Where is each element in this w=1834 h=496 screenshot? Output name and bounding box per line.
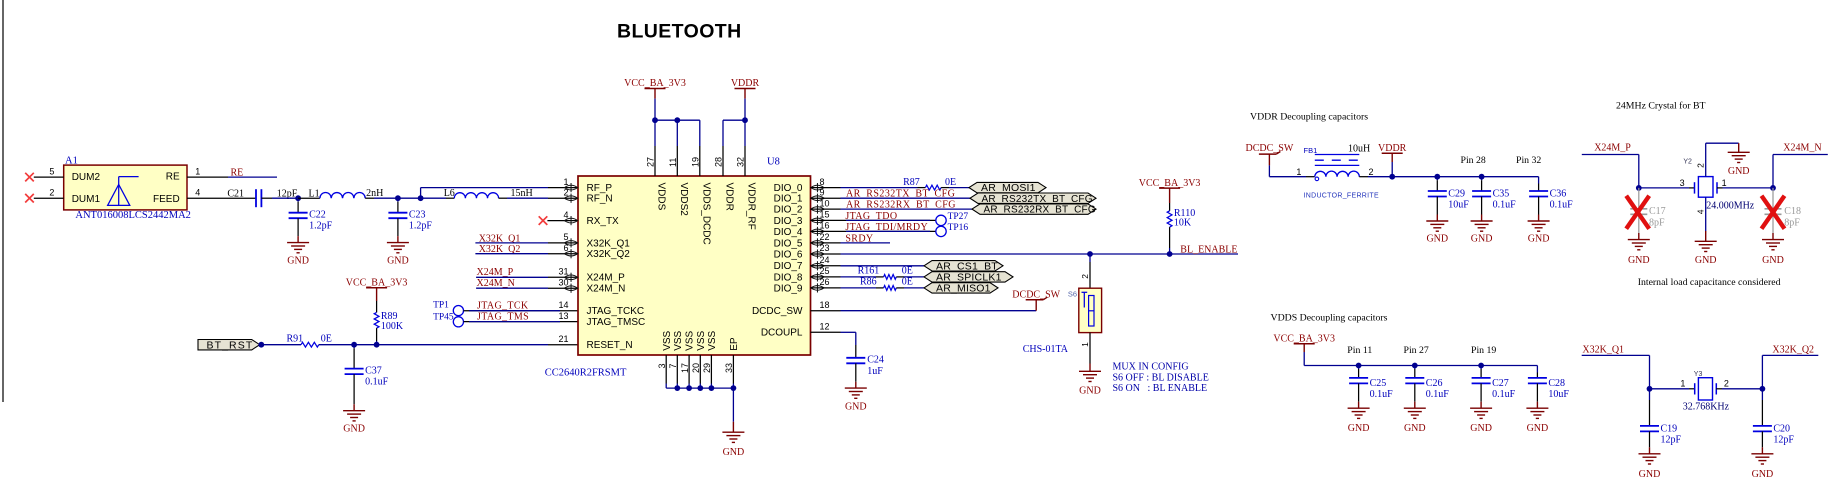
svg-text:VSS: VSS xyxy=(685,330,696,350)
svg-text:AR_RS232RX_BT_CFG: AR_RS232RX_BT_CFG xyxy=(984,205,1096,216)
svg-text:GND: GND xyxy=(1728,166,1750,177)
capacitor C19 12pF to GND xyxy=(1649,389,1651,400)
svg-text:C20: C20 xyxy=(1773,423,1790,434)
svg-text:MUX IN CONFIG: MUX IN CONFIG xyxy=(1113,361,1189,372)
svg-text:TP45: TP45 xyxy=(433,312,454,322)
svg-text:VDDR_RF: VDDR_RF xyxy=(746,183,757,230)
svg-text:DCDC_SW: DCDC_SW xyxy=(1012,289,1060,300)
crystal Y2 pin 4 to GND xyxy=(1705,197,1707,231)
capacitor C18 8pF DNP (grey) xyxy=(1772,188,1774,209)
svg-text:2: 2 xyxy=(1080,274,1090,279)
capacitor C23 1.2pF to GND xyxy=(397,198,399,202)
svg-text:10uH: 10uH xyxy=(1348,144,1370,155)
wire to crystal Y3 pin 1 xyxy=(1650,388,1690,390)
test point TP45 xyxy=(453,317,463,327)
svg-text:0.1uF: 0.1uF xyxy=(1426,389,1450,400)
svg-text:Pin 19: Pin 19 xyxy=(1471,345,1496,356)
svg-text:10uF: 10uF xyxy=(1448,200,1469,211)
svg-text:VDDR Decoupling capacitors: VDDR Decoupling capacitors xyxy=(1250,112,1368,123)
wire X32K_Q1 xyxy=(1582,354,1650,356)
svg-text:11: 11 xyxy=(668,158,678,167)
crystal pin 1 wire xyxy=(1717,187,1723,189)
A1 pin 4 FEED wire to C21 xyxy=(187,197,256,199)
ground at Y2 pin 4 xyxy=(1695,240,1717,242)
wire C21 to node1 xyxy=(261,197,272,199)
svg-text:1: 1 xyxy=(195,166,200,176)
svg-text:Internal load capacitance cons: Internal load capacitance considered xyxy=(1638,277,1781,288)
wire DIO_9 to R86 xyxy=(841,287,877,289)
svg-text:VCC_BA_3V3: VCC_BA_3V3 xyxy=(1273,334,1335,345)
capacitor C35 0.1uF to GND xyxy=(1481,177,1483,181)
svg-text:12: 12 xyxy=(820,322,830,332)
svg-text:GND: GND xyxy=(723,447,745,458)
svg-text:S6 OFF : BL DISABLE: S6 OFF : BL DISABLE xyxy=(1113,372,1209,383)
svg-text:RX_TX: RX_TX xyxy=(587,216,620,227)
svg-text:C37: C37 xyxy=(365,365,382,376)
svg-text:Pin 32: Pin 32 xyxy=(1516,155,1541,166)
svg-text:16: 16 xyxy=(820,221,830,231)
svg-text:FEED: FEED xyxy=(153,194,180,205)
svg-text:VDDS_DCDC: VDDS_DCDC xyxy=(700,183,711,245)
antenna A1 body xyxy=(64,165,187,210)
wire R87 to tag xyxy=(949,187,969,189)
svg-text:100K: 100K xyxy=(381,321,404,332)
svg-text:R87: R87 xyxy=(903,177,920,188)
svg-text:2nH: 2nH xyxy=(366,188,383,199)
off-page connector AR_SPICLK1 xyxy=(924,272,1013,282)
svg-text:15nH: 15nH xyxy=(511,188,533,199)
wire to crystal pin 3 xyxy=(1639,187,1689,189)
svg-text:TP16: TP16 xyxy=(948,223,969,233)
resistor R89 100K xyxy=(376,301,378,312)
svg-text:2: 2 xyxy=(563,187,568,197)
svg-text:5: 5 xyxy=(49,166,54,176)
svg-text:R86: R86 xyxy=(860,276,877,287)
svg-text:1: 1 xyxy=(1296,167,1301,177)
capacitor C28 10uF to GND xyxy=(1536,366,1538,370)
svg-text:GND: GND xyxy=(387,256,409,267)
svg-text:CHS-01TA: CHS-01TA xyxy=(1023,344,1069,355)
svg-text:DUM2: DUM2 xyxy=(72,172,101,183)
A1 pin 1 RE wire xyxy=(187,176,228,178)
svg-text:JTAG_TMSC: JTAG_TMSC xyxy=(587,317,646,328)
svg-text:Y2: Y2 xyxy=(1683,159,1692,166)
svg-text:DIO_0: DIO_0 xyxy=(774,183,803,194)
svg-text:0.1uF: 0.1uF xyxy=(1493,200,1517,211)
svg-text:FB1: FB1 xyxy=(1304,146,1318,155)
junction at R89 xyxy=(374,342,380,348)
off-page connector BT_RST xyxy=(198,340,260,350)
VDDS decoupling bus xyxy=(1304,365,1537,367)
crystal Y2 pin 2 to GND xyxy=(1705,143,1707,176)
svg-text:5: 5 xyxy=(563,232,568,242)
wire DCDC_SW pin 18 xyxy=(841,310,1037,312)
svg-text:1uF: 1uF xyxy=(867,366,883,377)
svg-text:C19: C19 xyxy=(1661,423,1678,434)
crystal Y3 pin 2 wire xyxy=(1716,388,1722,390)
off-page connector AR_RS232RX_BT_CFG xyxy=(972,204,1096,214)
svg-text:C17: C17 xyxy=(1649,206,1666,217)
svg-text:RE: RE xyxy=(166,172,180,183)
svg-text:0E: 0E xyxy=(902,265,913,276)
ground under U8 xyxy=(722,431,744,433)
svg-text:DIO_7: DIO_7 xyxy=(774,261,803,272)
VSS ground bus xyxy=(666,387,733,389)
svg-text:27: 27 xyxy=(646,157,656,167)
switch S6 symbol xyxy=(1082,291,1088,293)
junction at VDDR xyxy=(1389,174,1395,180)
wire DCDC_SW to FB1 xyxy=(1269,176,1306,178)
svg-text:14: 14 xyxy=(558,300,568,310)
DNP X over C18 xyxy=(1762,196,1785,229)
ground under C17 xyxy=(1628,239,1650,241)
svg-text:GND: GND xyxy=(343,424,365,435)
svg-text:30: 30 xyxy=(558,277,568,287)
svg-text:DIO_9: DIO_9 xyxy=(774,283,803,294)
svg-text:INDUCTOR_FERRITE: INDUCTOR_FERRITE xyxy=(1304,193,1379,200)
svg-text:C26: C26 xyxy=(1426,378,1443,389)
svg-text:4: 4 xyxy=(563,210,568,220)
svg-text:C18: C18 xyxy=(1784,206,1801,217)
svg-text:X32K_Q1: X32K_Q1 xyxy=(1582,344,1624,355)
capacitor C24 1uF to GND xyxy=(855,345,857,358)
svg-text:33: 33 xyxy=(724,363,734,373)
svg-text:A1: A1 xyxy=(65,155,78,166)
svg-text:BT_RST: BT_RST xyxy=(207,339,254,351)
svg-text:24MHz Crystal for BT: 24MHz Crystal for BT xyxy=(1616,101,1706,112)
svg-text:Pin 11: Pin 11 xyxy=(1347,345,1372,356)
test point TP27 xyxy=(936,215,946,225)
junction at C17 xyxy=(1636,185,1642,191)
svg-text:DUM1: DUM1 xyxy=(72,194,101,205)
svg-text:VDDS: VDDS xyxy=(656,183,667,211)
svg-text:26: 26 xyxy=(820,277,830,287)
svg-text:RF_N: RF_N xyxy=(587,194,613,205)
junction at BT_RST tip xyxy=(258,342,264,348)
wire VDDR to pins 28 32 xyxy=(744,99,746,121)
svg-text:12pF: 12pF xyxy=(1773,435,1794,446)
svg-text:VDDR: VDDR xyxy=(1378,143,1407,154)
svg-text:1.2pF: 1.2pF xyxy=(309,221,333,232)
svg-text:VCC_BA_3V3: VCC_BA_3V3 xyxy=(1139,178,1201,189)
svg-text:DIO_1: DIO_1 xyxy=(774,194,803,205)
svg-text:X24M_N: X24M_N xyxy=(1783,142,1821,153)
svg-text:GND: GND xyxy=(1404,423,1426,434)
svg-text:C22: C22 xyxy=(309,209,326,220)
wire to RESET_N pin 21 xyxy=(377,344,548,346)
wire FB1 to VDDR node xyxy=(1368,176,1392,178)
svg-text:3: 3 xyxy=(1680,178,1685,188)
svg-text:31: 31 xyxy=(558,267,568,277)
svg-text:GND: GND xyxy=(1527,423,1549,434)
capacitor C29 10uF to GND xyxy=(1436,177,1438,181)
svg-text:Pin 27: Pin 27 xyxy=(1404,345,1429,356)
capacitor C22 1.2pF to GND xyxy=(297,198,299,202)
svg-text:GND: GND xyxy=(1695,255,1717,266)
sheet border line (left edge) xyxy=(2,0,4,402)
svg-text:GND: GND xyxy=(287,256,309,267)
svg-text:CC2640R2FRSMT: CC2640R2FRSMT xyxy=(545,368,627,379)
junction at C20 xyxy=(1760,386,1766,392)
svg-text:JTAG_TCK: JTAG_TCK xyxy=(477,300,529,311)
svg-text:AR_RS232TX_BT_CFG: AR_RS232TX_BT_CFG xyxy=(982,194,1093,205)
svg-text:JTAG_TMS: JTAG_TMS xyxy=(477,311,529,322)
antenna symbol inside A1 xyxy=(108,184,130,205)
svg-text:VCC_BA_3V3: VCC_BA_3V3 xyxy=(624,78,686,89)
svg-text:X24M_P: X24M_P xyxy=(587,273,626,284)
wire node2 to riser junction xyxy=(398,197,421,199)
svg-text:VSS: VSS xyxy=(707,330,718,350)
wire VCC to top pin bus xyxy=(654,99,656,121)
junction at C37 xyxy=(351,342,357,348)
svg-text:DCOUPL: DCOUPL xyxy=(761,328,803,339)
wire DIO_0 to R87 xyxy=(841,187,918,189)
U8 bottom VSS pins xyxy=(665,355,667,384)
svg-text:8pF: 8pF xyxy=(1649,218,1665,229)
junction at C18 xyxy=(1770,185,1776,191)
svg-text:S6: S6 xyxy=(1068,289,1077,298)
svg-text:4: 4 xyxy=(195,187,200,197)
junction to R110 xyxy=(1167,251,1173,257)
svg-text:C21: C21 xyxy=(227,188,244,199)
wire to R89 node xyxy=(354,344,377,346)
no-connect X on RX_TX pin 4 xyxy=(539,216,548,225)
wire DIO_7 to tag xyxy=(841,265,925,267)
svg-text:1: 1 xyxy=(1680,379,1685,389)
A1 pin 2 wire xyxy=(34,197,64,199)
junction at C27 xyxy=(1478,363,1484,369)
capacitor C25 0.1uF to GND xyxy=(1358,366,1360,370)
svg-text:25: 25 xyxy=(820,266,830,276)
svg-text:GND: GND xyxy=(1628,255,1650,266)
svg-text:BL_ENABLE: BL_ENABLE xyxy=(1180,244,1237,255)
svg-text:JTAG_TCKC: JTAG_TCKC xyxy=(587,306,645,317)
svg-text:GND: GND xyxy=(1528,234,1550,245)
junction at C35 xyxy=(1479,174,1485,180)
svg-text:VDDR: VDDR xyxy=(724,183,735,211)
wire BT_RST to R91 xyxy=(261,344,301,346)
svg-text:GND: GND xyxy=(1470,423,1492,434)
off-page connector AR_MOSI1 xyxy=(969,182,1046,192)
test point TP1 xyxy=(453,306,463,316)
svg-text:GND: GND xyxy=(1426,234,1448,245)
capacitor C37 0.1uF to GND xyxy=(353,345,355,349)
off-page connector AR_MISO1 xyxy=(924,283,998,293)
svg-text:R161: R161 xyxy=(858,265,880,276)
svg-text:12pF: 12pF xyxy=(1661,435,1682,446)
A1 pin 5 wire xyxy=(34,176,64,178)
svg-text:1.2pF: 1.2pF xyxy=(409,221,433,232)
svg-text:C28: C28 xyxy=(1548,378,1565,389)
wire junction down to S6 xyxy=(1089,254,1091,262)
capacitor C20 12pF to GND xyxy=(1761,389,1763,400)
wire L1 to node2 xyxy=(374,197,398,199)
capacitor C36 0.1uF to GND xyxy=(1538,177,1540,180)
IC U8 body CC2640R2FRSMT xyxy=(578,176,811,355)
VDDR decoupling bus xyxy=(1392,176,1538,178)
svg-text:RE: RE xyxy=(231,167,244,178)
svg-text:17: 17 xyxy=(680,363,690,373)
wire to RF_P pin 1 xyxy=(421,187,548,189)
wire riser up to RF_P line xyxy=(420,188,422,199)
svg-text:24: 24 xyxy=(820,255,830,265)
no-connect X on A1 pin 2 xyxy=(25,194,34,203)
wire L6 to RF_N pin 2 xyxy=(507,197,548,199)
svg-text:VDDS2: VDDS2 xyxy=(678,183,689,217)
junction node at C23 xyxy=(395,195,401,201)
svg-text:X32K_Q2: X32K_Q2 xyxy=(587,249,631,260)
svg-text:19: 19 xyxy=(690,157,700,167)
svg-text:0E: 0E xyxy=(945,177,956,188)
junction node at C22 xyxy=(295,195,301,201)
svg-text:ANT016008LCS2442MA2: ANT016008LCS2442MA2 xyxy=(75,210,191,221)
svg-text:28: 28 xyxy=(714,157,724,167)
wire EP bus to GND xyxy=(732,388,734,422)
svg-text:1: 1 xyxy=(563,177,568,187)
svg-text:DIO_8: DIO_8 xyxy=(774,272,803,283)
svg-text:AR_MISO1: AR_MISO1 xyxy=(936,283,991,295)
svg-text:C24: C24 xyxy=(867,355,884,366)
svg-text:2: 2 xyxy=(1724,379,1729,389)
svg-text:21: 21 xyxy=(558,334,568,344)
svg-text:0.1uF: 0.1uF xyxy=(1550,200,1574,211)
svg-text:1: 1 xyxy=(1080,342,1090,347)
svg-text:C29: C29 xyxy=(1448,188,1465,199)
svg-text:VSS: VSS xyxy=(662,330,673,350)
svg-text:EP: EP xyxy=(729,337,740,351)
svg-text:DIO_2: DIO_2 xyxy=(774,205,803,216)
svg-text:24.000MHz: 24.000MHz xyxy=(1706,200,1755,211)
svg-text:22: 22 xyxy=(820,232,830,242)
wire DCOUPL pin 12 to C24 xyxy=(841,331,856,333)
svg-text:C25: C25 xyxy=(1370,378,1387,389)
svg-text:1: 1 xyxy=(1722,178,1727,188)
svg-text:GND: GND xyxy=(845,402,867,413)
DNP X over C17 xyxy=(1626,196,1649,229)
svg-text:X32K_Q1: X32K_Q1 xyxy=(587,238,631,249)
svg-text:32.768KHz: 32.768KHz xyxy=(1683,402,1730,413)
ground at Y2 pin 2 xyxy=(1728,151,1750,153)
svg-text:C27: C27 xyxy=(1492,378,1509,389)
svg-text:GND: GND xyxy=(1762,255,1784,266)
svg-text:DIO_3: DIO_3 xyxy=(774,216,803,227)
svg-text:X24M_P: X24M_P xyxy=(477,267,514,278)
svg-text:C36: C36 xyxy=(1550,188,1567,199)
junction at riser to RF_P xyxy=(418,195,424,201)
svg-text:VSS: VSS xyxy=(696,330,707,350)
svg-text:4: 4 xyxy=(1696,209,1706,214)
wire R91 to node xyxy=(319,344,354,346)
svg-text:0E: 0E xyxy=(321,333,332,344)
svg-text:VDDR: VDDR xyxy=(731,78,760,89)
svg-text:X24M_N: X24M_N xyxy=(477,278,515,289)
ground under S6 xyxy=(1079,370,1101,372)
svg-text:S6 ON : BL ENABLE: S6 ON : BL ENABLE xyxy=(1113,383,1208,394)
svg-text:29: 29 xyxy=(702,363,712,373)
svg-text:0E: 0E xyxy=(902,276,913,287)
svg-text:TP27: TP27 xyxy=(948,212,969,222)
svg-text:DCDC_SW: DCDC_SW xyxy=(752,306,803,317)
svg-text:23: 23 xyxy=(820,243,830,253)
capacitor C26 0.1uF to GND xyxy=(1414,366,1416,370)
svg-text:BLUETOOTH: BLUETOOTH xyxy=(617,21,742,43)
svg-text:RF_P: RF_P xyxy=(587,183,613,194)
junction at C25 xyxy=(1356,363,1362,369)
svg-text:0.1uF: 0.1uF xyxy=(365,377,389,388)
svg-text:C23: C23 xyxy=(409,209,426,220)
test point TP16 xyxy=(936,226,946,236)
resistor R110 10K xyxy=(1169,203,1171,211)
svg-text:DIO_6: DIO_6 xyxy=(774,249,803,260)
wire RX_TX pin 4 xyxy=(547,220,578,222)
junction to S6 xyxy=(1087,251,1093,257)
svg-text:L6: L6 xyxy=(444,188,455,199)
ground under C24 xyxy=(845,387,867,389)
svg-text:VDDS Decoupling capacitors: VDDS Decoupling capacitors xyxy=(1271,312,1388,323)
svg-text:RESET_N: RESET_N xyxy=(587,340,633,351)
svg-text:10uF: 10uF xyxy=(1548,389,1569,400)
junction at C19 xyxy=(1647,386,1653,392)
svg-text:13: 13 xyxy=(558,311,568,321)
svg-text:2: 2 xyxy=(49,187,54,197)
svg-text:X24M_P: X24M_P xyxy=(1594,142,1631,153)
svg-text:GND: GND xyxy=(1348,423,1370,434)
svg-text:Pin 28: Pin 28 xyxy=(1461,155,1486,166)
svg-text:15: 15 xyxy=(820,210,830,220)
svg-text:GND: GND xyxy=(1752,469,1774,480)
svg-text:VSS: VSS xyxy=(673,330,684,350)
svg-text:R91: R91 xyxy=(287,333,304,344)
svg-text:VCC_BA_3V3: VCC_BA_3V3 xyxy=(346,278,408,289)
svg-text:X32K_Q2: X32K_Q2 xyxy=(1772,344,1814,355)
svg-text:GND: GND xyxy=(1079,386,1101,397)
svg-text:0.1uF: 0.1uF xyxy=(1370,389,1394,400)
svg-text:0.1uF: 0.1uF xyxy=(1492,389,1516,400)
svg-text:32: 32 xyxy=(736,157,746,167)
svg-text:U8: U8 xyxy=(767,157,780,168)
junction at C29 xyxy=(1434,174,1440,180)
svg-text:AR_MOSI1: AR_MOSI1 xyxy=(981,182,1036,194)
svg-text:10: 10 xyxy=(820,198,830,208)
capacitor C17 8pF DNP (grey) xyxy=(1638,188,1640,209)
svg-text:GND: GND xyxy=(1639,469,1661,480)
no-connect X on A1 pin 5 xyxy=(25,173,34,182)
wire DIO_6 long BL_ENABLE net xyxy=(841,253,1239,255)
svg-text:6: 6 xyxy=(563,243,568,253)
svg-text:TP1: TP1 xyxy=(433,300,449,310)
svg-text:DIO_5: DIO_5 xyxy=(774,238,803,249)
ground under C18 xyxy=(1762,239,1784,241)
switch S6 body xyxy=(1079,288,1102,332)
svg-text:C35: C35 xyxy=(1493,188,1510,199)
svg-text:GND: GND xyxy=(1471,234,1493,245)
off-page connector AR_RS232TX_BT_CFG xyxy=(970,193,1096,203)
wire X24M_P xyxy=(1582,154,1639,156)
svg-text:2: 2 xyxy=(1696,163,1706,168)
svg-text:3: 3 xyxy=(657,363,667,368)
U8 top pins with rotated labels xyxy=(654,146,656,176)
wire DIO_8 to R161 xyxy=(841,276,877,278)
junction at C26 xyxy=(1412,363,1418,369)
svg-text:DIO_4: DIO_4 xyxy=(774,227,803,238)
S6 pin 1 to GND xyxy=(1089,333,1091,364)
off-page connector AR_CS1_BT xyxy=(924,261,1003,271)
svg-text:7: 7 xyxy=(668,363,678,368)
svg-text:8pF: 8pF xyxy=(1784,218,1800,229)
svg-text:18: 18 xyxy=(820,300,830,310)
svg-text:DCDC_SW: DCDC_SW xyxy=(1246,143,1294,154)
capacitor C27 0.1uF to GND xyxy=(1480,366,1482,370)
